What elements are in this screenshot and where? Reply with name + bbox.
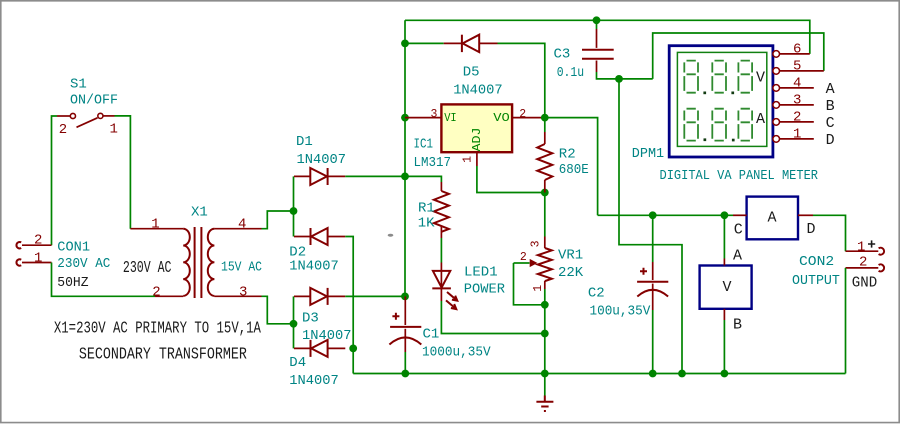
- svg-text:VI: VI: [444, 111, 457, 125]
- resistor R2: [537, 118, 589, 193]
- wire VO to output net: [545, 118, 598, 216]
- svg-text:100u,35V: 100u,35V: [590, 304, 651, 320]
- svg-text:POWER: POWER: [464, 282, 506, 298]
- capacitor C3: [554, 20, 653, 81]
- svg-text:B: B: [733, 317, 742, 334]
- svg-text:15V AC: 15V AC: [221, 260, 262, 276]
- svg-text:4: 4: [793, 75, 801, 91]
- LED LED1: [432, 263, 505, 310]
- junction rail C2: [649, 370, 657, 378]
- svg-text:R1: R1: [418, 201, 435, 217]
- svg-text:1: 1: [34, 251, 42, 267]
- top wire +rail to DPM pin6: [405, 20, 810, 54]
- junction +rail C1 top: [401, 293, 409, 301]
- wire R1 to LED1: [440, 238, 442, 263]
- svg-text:2: 2: [34, 233, 42, 249]
- switch S1: [57, 77, 118, 139]
- svg-text:680E: 680E: [559, 162, 589, 178]
- svg-text:1: 1: [793, 126, 801, 142]
- svg-text:CON1: CON1: [57, 239, 90, 255]
- op-amp U1 regulator IC1 LM317: [405, 104, 545, 171]
- DPM pin 5: [773, 58, 824, 74]
- wire output row: [598, 214, 733, 216]
- svg-text:1000u,35V: 1000u,35V: [422, 345, 491, 361]
- svg-text:LED1: LED1: [464, 265, 498, 281]
- svg-text:6: 6: [793, 41, 801, 57]
- svg-text:X1: X1: [191, 205, 208, 221]
- wire X1 pin4 to bridge node A: [262, 211, 294, 229]
- svg-text:ADJ: ADJ: [470, 128, 484, 152]
- wire S1 pin2 to CON1 pin2: [52, 116, 58, 245]
- svg-text:D: D: [826, 132, 835, 149]
- capacitor C1: [389, 296, 491, 373]
- svg-text:2: 2: [859, 255, 867, 271]
- wire D5 anode to VO node: [498, 43, 545, 117]
- DPM pin 2: [773, 109, 835, 132]
- svg-text:C2: C2: [588, 286, 605, 302]
- DPM pin 4: [773, 75, 835, 98]
- svg-text:2: 2: [519, 108, 526, 121]
- svg-text:1N4007: 1N4007: [297, 152, 347, 168]
- junction rail gnd net: [678, 370, 686, 378]
- svg-text:GND: GND: [852, 274, 877, 291]
- 7-segment digits row V: [684, 61, 752, 95]
- junction rail ground stub: [541, 370, 549, 378]
- wire S1 pin1 to X1 pin1: [115, 116, 131, 229]
- svg-text:D5: D5: [463, 65, 480, 81]
- svg-text:S1: S1: [70, 77, 87, 93]
- svg-text:50HZ: 50HZ: [57, 275, 88, 291]
- stray mark: [388, 234, 394, 237]
- connector CON1: [16, 233, 110, 292]
- svg-text:1K: 1K: [418, 216, 435, 232]
- diode D3: [294, 288, 352, 344]
- svg-text:1: 1: [532, 285, 545, 292]
- junction V meter top: [721, 211, 729, 219]
- junction C3 bottom node: [615, 75, 623, 83]
- diode D5: [405, 35, 503, 99]
- junction VR1 wiper node: [541, 301, 549, 309]
- wire C3 node to ground rail: [619, 79, 682, 374]
- wire C3 node to DPM pin5: [653, 33, 824, 79]
- voltmeter V: [700, 215, 752, 373]
- svg-text:D4: D4: [289, 355, 306, 371]
- svg-text:LM317: LM317: [414, 155, 452, 171]
- wire D3 cathode to C1: [345, 295, 405, 297]
- svg-text:V: V: [723, 279, 732, 296]
- wire D1 cathode to +rail: [345, 175, 405, 177]
- svg-text:DIGITAL VA PANEL METER: DIGITAL VA PANEL METER: [660, 168, 819, 184]
- junction D2/D4 anodes: [349, 345, 357, 353]
- wire node A vertical: [293, 176, 295, 236]
- junction VO node: [541, 114, 549, 122]
- svg-text:3: 3: [239, 285, 247, 301]
- wire CON2 pin2 to ground rail: [845, 268, 847, 374]
- svg-text:C3: C3: [554, 47, 571, 63]
- resistor R1: [405, 176, 449, 238]
- svg-text:4: 4: [238, 217, 246, 233]
- junction +rail D5 row: [401, 40, 409, 48]
- junction C3 top: [593, 16, 601, 24]
- svg-text:D: D: [807, 221, 816, 238]
- svg-text:B: B: [826, 98, 835, 115]
- 7-segment digits row A: [684, 109, 752, 142]
- diode D1: [294, 134, 346, 185]
- svg-text:A: A: [733, 248, 742, 265]
- diode D2: [289, 228, 345, 275]
- svg-text:1: 1: [110, 122, 118, 138]
- svg-text:IC1: IC1: [414, 136, 434, 152]
- svg-text:C1: C1: [423, 327, 440, 343]
- svg-text:1N4007: 1N4007: [289, 373, 339, 389]
- wire LED1 cathode to VR1 node: [441, 301, 544, 334]
- ground: [544, 374, 546, 396]
- junction +rail VI row: [401, 114, 409, 122]
- svg-text:A: A: [756, 111, 765, 128]
- svg-text:X1=230V AC PRIMARY TO 15V,1A: X1=230V AC PRIMARY TO 15V,1A: [54, 319, 261, 338]
- svg-text:2: 2: [59, 122, 67, 138]
- svg-text:2: 2: [793, 109, 801, 125]
- svg-text:3: 3: [431, 108, 438, 121]
- junction C2 top: [649, 211, 657, 219]
- svg-text:3: 3: [793, 92, 801, 108]
- svg-text:0.1u: 0.1u: [557, 65, 584, 81]
- capacitor C2: [588, 215, 668, 373]
- svg-text:1: 1: [461, 156, 474, 163]
- DPM pin 6: [773, 41, 810, 57]
- connector CON2: [792, 240, 884, 292]
- svg-text:V: V: [756, 70, 765, 87]
- wire D2 anode to negative rail: [345, 237, 353, 374]
- junction +rail D1 row: [401, 173, 409, 181]
- svg-text:C: C: [734, 222, 743, 239]
- wire CON1 pin1 to X1 pin2: [52, 263, 156, 297]
- DPM pin 3: [773, 92, 835, 115]
- svg-text:3: 3: [530, 240, 543, 247]
- transformer X1: [123, 205, 262, 301]
- svg-text:1: 1: [857, 240, 865, 256]
- wire node B vertical: [293, 296, 295, 348]
- potentiometer VR1: [514, 193, 584, 374]
- junction LED node: [541, 330, 549, 338]
- svg-text:1N4007: 1N4007: [289, 259, 339, 275]
- wire ADJ to R2/VR1 node: [477, 166, 545, 193]
- svg-text:22K: 22K: [558, 265, 584, 281]
- svg-text:CON2: CON2: [799, 254, 834, 270]
- svg-text:D1: D1: [296, 134, 313, 150]
- svg-text:OUTPUT: OUTPUT: [792, 273, 840, 289]
- svg-text:230V AC: 230V AC: [57, 256, 110, 272]
- DPM pin 1: [773, 126, 835, 149]
- wire A meter D to CON2 pin1: [813, 215, 846, 251]
- svg-text:1: 1: [151, 217, 159, 233]
- ground rail: [353, 373, 845, 375]
- svg-text:230V AC: 230V AC: [123, 258, 172, 277]
- svg-text:A: A: [826, 81, 835, 98]
- svg-text:2: 2: [520, 251, 527, 264]
- svg-text:VR1: VR1: [558, 248, 583, 264]
- svg-text:C: C: [826, 115, 835, 132]
- svg-text:ON/OFF: ON/OFF: [70, 93, 118, 109]
- +rail vertical: [404, 20, 406, 296]
- ammeter A: [733, 197, 816, 240]
- svg-text:VO: VO: [493, 111, 510, 125]
- wire X1 pin3 to bridge node B: [262, 296, 294, 324]
- svg-text:2: 2: [152, 285, 160, 301]
- digital panel meter DPM1: [632, 46, 819, 184]
- node B junction: [290, 320, 298, 328]
- node A junction: [290, 207, 298, 215]
- svg-text:DPM1: DPM1: [632, 146, 664, 162]
- svg-text:R2: R2: [559, 146, 576, 162]
- svg-text:1N4007: 1N4007: [453, 83, 503, 99]
- svg-text:SECONDARY TRANSFORMER: SECONDARY TRANSFORMER: [79, 345, 247, 364]
- diode D4: [289, 340, 345, 389]
- svg-text:5: 5: [793, 58, 801, 74]
- svg-text:A: A: [768, 210, 777, 227]
- junction rail C1: [401, 370, 409, 378]
- svg-text:D3: D3: [302, 311, 319, 327]
- junction rail V meter: [721, 370, 729, 378]
- junction ADJ node: [541, 189, 549, 197]
